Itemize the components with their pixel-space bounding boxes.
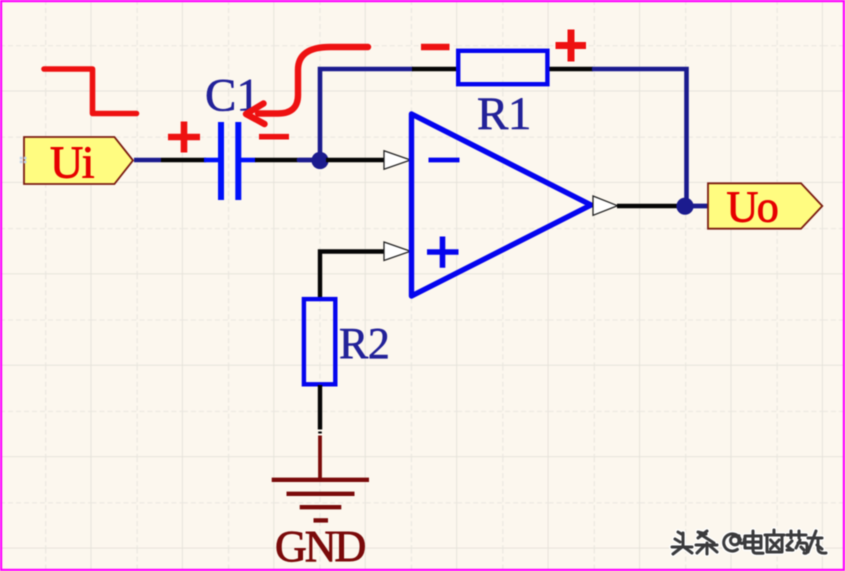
op-amp U1 triangle bbox=[412, 114, 592, 296]
pin arrow: non-inverting input bbox=[384, 242, 411, 261]
wire: black below R2 bbox=[318, 385, 322, 430]
wire: black from node A to inverting input bbox=[326, 158, 385, 162]
annotation: red input step waveform bbox=[44, 69, 137, 114]
annotation: red minus at capacitor right bbox=[259, 134, 289, 140]
node: Ui port hotspot marker bbox=[20, 157, 27, 163]
wire: feedback net right horizontal + vertical down to output node (navy) bbox=[592, 69, 687, 199]
pin arrow: inverting input bbox=[384, 151, 411, 169]
op-amp plus marker bbox=[427, 237, 459, 268]
svg-text:GND: GND bbox=[275, 522, 366, 571]
watermark: 头条 @电卤药丸 bbox=[672, 530, 826, 554]
ground GND symbol stem bbox=[318, 436, 322, 481]
wire: black stub into R1 left bbox=[412, 67, 457, 71]
resistor R2 bbox=[304, 299, 335, 384]
svg-text:R2: R2 bbox=[339, 319, 389, 368]
capacitor C1 plates bbox=[218, 122, 224, 200]
capacitor C1 pin right (blue) bbox=[241, 158, 256, 163]
annotation: red curved arrow to C1 bbox=[258, 47, 368, 114]
node B junction dot bbox=[676, 198, 693, 215]
ground bar 1 bbox=[272, 478, 369, 482]
wire: feedback net left vertical + top horizontal (navy) bbox=[320, 69, 413, 153]
annotation: red plus at capacitor left bbox=[168, 122, 200, 153]
port Ui bbox=[24, 137, 133, 184]
wire: black stub out of R1 right bbox=[549, 67, 594, 71]
wire: black from Ui stub to capacitor bbox=[161, 158, 206, 162]
pin arrow: op-amp output bbox=[593, 196, 618, 215]
svg-text:Uo: Uo bbox=[727, 183, 778, 232]
ground bar 3 bbox=[300, 505, 342, 509]
wire: black from capacitor to node A bbox=[255, 158, 298, 162]
port Uo bbox=[708, 183, 822, 228]
wire: navy stub from Ui port bbox=[134, 158, 161, 162]
op-amp minus marker bbox=[429, 158, 460, 163]
resistor R1 bbox=[458, 51, 547, 84]
svg-text:R1: R1 bbox=[477, 88, 531, 140]
wire: short navy stub left of node A bbox=[299, 158, 313, 163]
ground bar 4 bbox=[314, 518, 329, 522]
annotation: red minus above R1 bbox=[421, 44, 450, 51]
capacitor C1 pin left (blue) bbox=[204, 158, 218, 163]
node A junction dot bbox=[311, 152, 328, 169]
wire: black from output arrow to node B bbox=[617, 204, 678, 208]
svg-text:Ui: Ui bbox=[50, 137, 94, 188]
annotation: red plus right of R1 bbox=[556, 30, 587, 62]
wire: non-inverting input horizontal + vertical down to R2 bbox=[320, 252, 385, 301]
ground bar 2 bbox=[287, 492, 355, 496]
wire: navy stub from node B to Uo port bbox=[692, 204, 709, 209]
